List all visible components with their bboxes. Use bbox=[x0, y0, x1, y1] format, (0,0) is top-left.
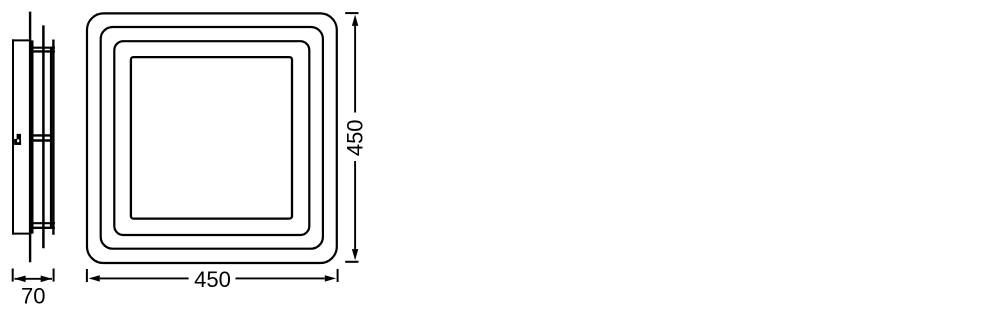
dimension 450 right: bottom tick bbox=[345, 261, 358, 263]
dimension 70: line bbox=[15, 278, 53, 280]
dimension 450 bottom: right arrow bbox=[325, 275, 336, 281]
dimension 70: right tick bbox=[53, 269, 55, 282]
side view: bottom bracket lower bar bbox=[29, 227, 55, 229]
side view: top bracket upper bar bbox=[29, 47, 55, 49]
dimension 450 bottom: line right segment bbox=[236, 277, 325, 279]
front view: frame step ring bbox=[101, 27, 323, 249]
svg-text:450: 450 bbox=[194, 267, 231, 292]
side view: mid bracket upper bar bbox=[29, 134, 52, 136]
dimension 450 right: bottom arrow bbox=[352, 249, 358, 260]
dimension 70: left arrow bbox=[14, 276, 25, 283]
side view: housing mid line bbox=[42, 25, 45, 248]
svg-text:70: 70 bbox=[21, 284, 45, 309]
front view: outer frame bbox=[87, 13, 337, 263]
side view: mounting clip bbox=[14, 134, 21, 145]
dimension 450 bottom: line left segment bbox=[100, 277, 189, 279]
dimension 70: right arrow bbox=[41, 276, 52, 283]
svg-text:450: 450 bbox=[343, 119, 368, 156]
side view: back plate rear line bbox=[52, 40, 54, 235]
dimension 450 right: line lower segment bbox=[354, 161, 356, 249]
side view: panel top edge bbox=[12, 39, 31, 41]
side view: diffuser front line bbox=[29, 12, 31, 263]
side view: panel left edge bbox=[12, 39, 14, 234]
side view: top bracket lower bar bbox=[29, 50, 55, 52]
dimension 450 right: line upper segment bbox=[354, 26, 356, 113]
side view: panel bottom edge bbox=[12, 233, 31, 235]
dimension 450 bottom: left tick bbox=[86, 269, 88, 282]
front view: inner light surface bbox=[131, 57, 292, 219]
side view: bottom bracket upper bar bbox=[29, 222, 55, 224]
dimension 450 bottom: right tick bbox=[337, 269, 339, 282]
dimension 450 right: top arrow bbox=[352, 15, 358, 26]
side view: mid bracket lower bar bbox=[29, 139, 52, 141]
side view: diffuser rear line bbox=[31, 40, 34, 233]
side view: back plate front line bbox=[50, 47, 52, 229]
front view: diffuser edge ring bbox=[114, 41, 309, 235]
dimension 450 right: top tick bbox=[345, 12, 358, 14]
dimension 70: left tick bbox=[12, 269, 14, 282]
dimension 450 bottom: left arrow bbox=[89, 275, 100, 281]
